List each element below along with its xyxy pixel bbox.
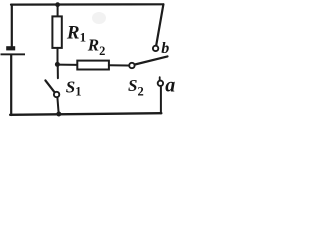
switch S1 lever: [45, 80, 54, 92]
switch S2 pivot: [129, 63, 134, 68]
resistor R2: [77, 61, 109, 70]
terminal a: [158, 81, 163, 86]
wire left upper: [11, 5, 13, 47]
resistor R1: [52, 16, 61, 48]
terminal b: [153, 46, 158, 51]
switch S1 pivot: [54, 92, 59, 97]
wire right lower: [160, 86, 162, 113]
wire S1 top stub: [57, 64, 59, 78]
wire top: [11, 3, 163, 5]
switch S2 lever: [135, 56, 168, 64]
svg-text:b: b: [161, 40, 169, 57]
wire R2 right lead: [109, 64, 129, 66]
wire mid horizontal: [57, 64, 77, 66]
wire right upper slant: [156, 4, 163, 45]
wire R1 bottom lead: [57, 48, 59, 64]
node junction bottom: [56, 112, 61, 117]
wire R1 top lead: [57, 5, 59, 17]
terminal a stub: [159, 77, 161, 80]
battery short plate: [6, 46, 15, 50]
battery long plate: [1, 53, 26, 55]
node junction mid: [55, 62, 60, 67]
wire bottom: [10, 113, 161, 115]
node junction top: [55, 2, 60, 7]
svg-text:a: a: [165, 75, 175, 97]
wire S1 bottom lead: [57, 97, 58, 114]
wire left lower: [10, 55, 12, 115]
scan smudge: [92, 12, 106, 24]
